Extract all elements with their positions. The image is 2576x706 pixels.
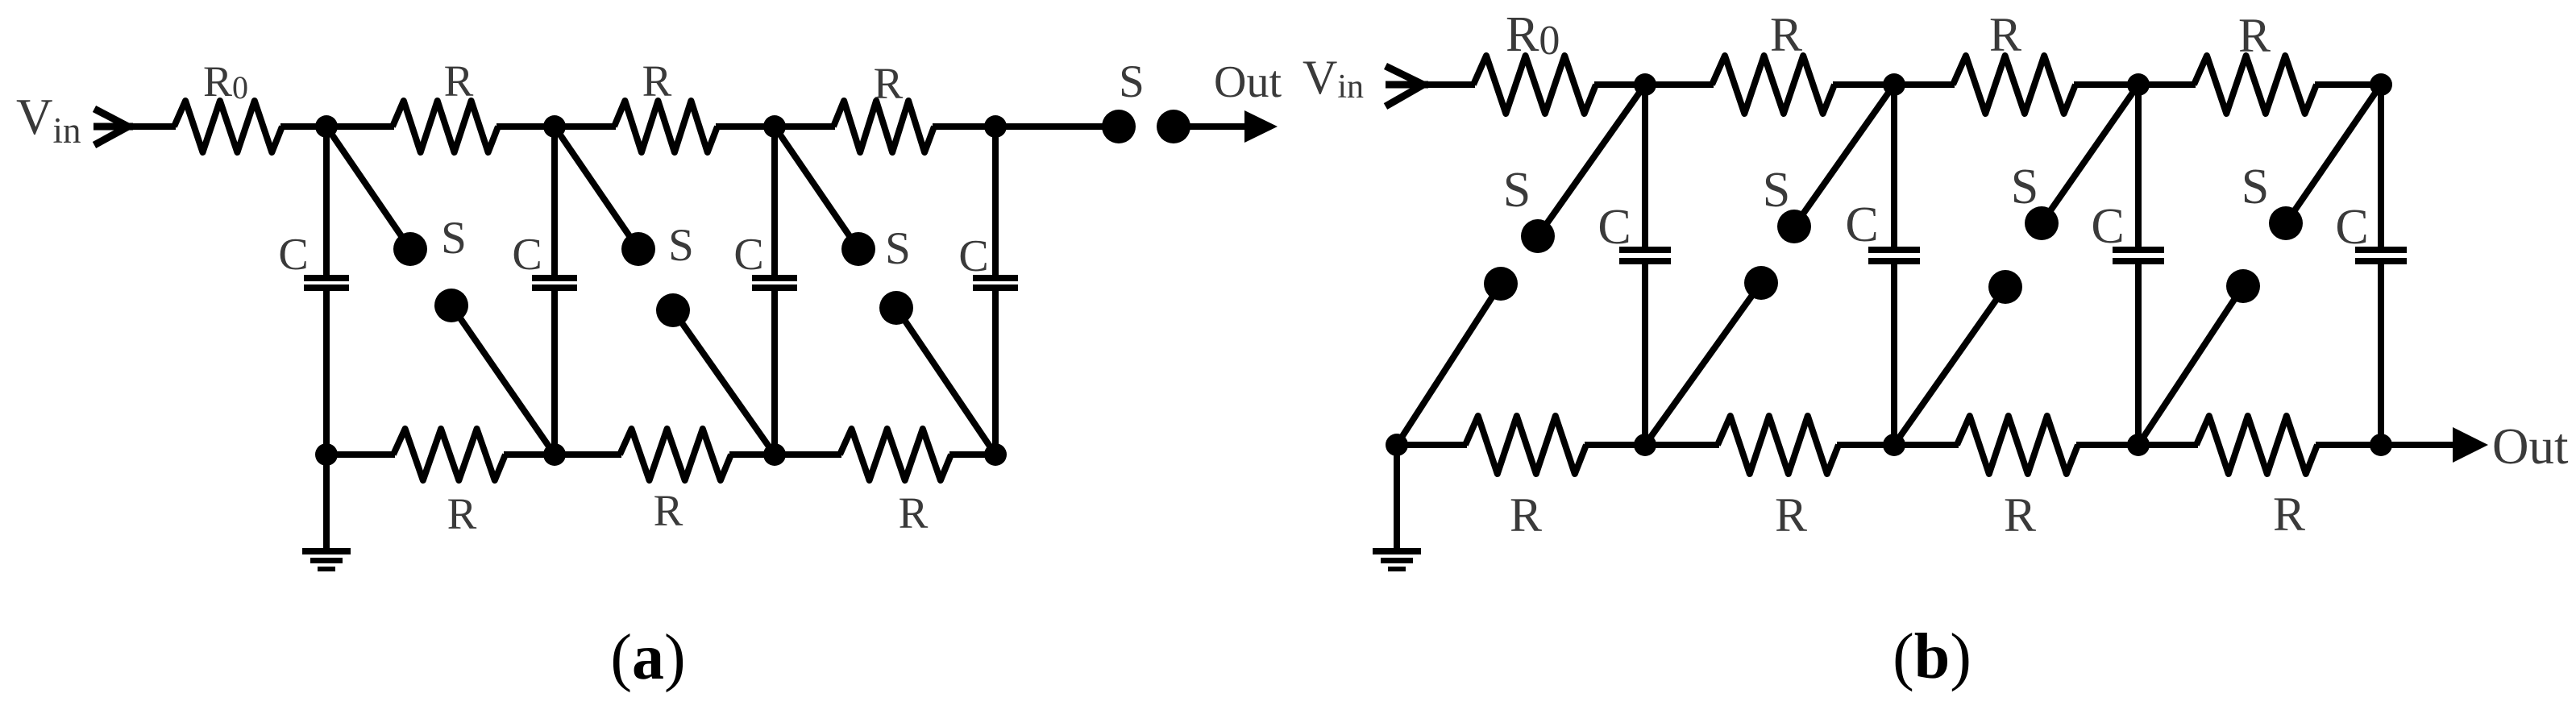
wire Vin arrow to R0 (a) — [127, 123, 176, 130]
capacitor C2 (b) — [1868, 250, 1920, 261]
svg-text:Out: Out — [1214, 57, 1282, 107]
svg-text:S: S — [668, 220, 694, 271]
svg-text:(a): (a) — [610, 622, 685, 693]
resistor R (b bottom 2) — [1718, 416, 1839, 474]
svg-text:Out: Out — [2492, 418, 2569, 475]
resistor R (a top 2) — [614, 101, 717, 152]
wire resistor R to bottom node 4 (b) — [2316, 442, 2381, 448]
wire node 2 to resistor R (a top 2) — [555, 123, 616, 130]
wire node 1 to resistor R (b top 1) — [1645, 81, 1714, 88]
wire resistor R to bottom node 3 (a) — [729, 451, 775, 458]
switch S2 contact dot lower (a) — [656, 293, 690, 327]
svg-text:R: R — [2238, 9, 2271, 62]
switch S1 contact dot lower (b) — [1484, 267, 1518, 301]
switch S2 blade lower (b) — [1645, 283, 1761, 445]
svg-text:R: R — [444, 56, 474, 106]
svg-text:S: S — [885, 223, 911, 274]
wire resistor R to bottom node 4 (a) — [949, 451, 995, 458]
wire resistor R to node 2 (a) — [497, 123, 555, 130]
svg-text:C: C — [2335, 200, 2368, 255]
switch S3 blade lower (b) — [1894, 287, 2005, 445]
svg-text:R: R — [2004, 488, 2036, 542]
switch S3 contact dot lower (a) — [879, 291, 913, 325]
switch S4 contact dot lower (b) — [2226, 269, 2260, 303]
switch S3 contact dot upper (b) — [2025, 206, 2059, 240]
svg-text:C: C — [512, 230, 542, 280]
capacitor C3 (a) — [752, 278, 797, 288]
wire capacitor C4 to bottom node (b) — [2378, 264, 2384, 445]
node bottom 1 (a) — [315, 443, 338, 466]
svg-text:S: S — [1763, 163, 1790, 218]
resistor R (b top 1) — [1712, 56, 1834, 114]
node bottom 2 (b) — [1883, 434, 1905, 456]
wire resistor R to node 4 (a) — [933, 123, 995, 130]
switch S1 contact dot lower (a) — [434, 289, 468, 322]
resistor R (a bottom 3) — [840, 429, 951, 480]
wire resistor R to node 3 (b) — [2074, 81, 2138, 88]
wire capacitor C1 to bottom node (a) — [323, 291, 330, 455]
resistor R (b bottom 1) — [1465, 416, 1586, 474]
node top 1 (a) — [315, 115, 338, 138]
resistor R0 (b) — [1473, 56, 1596, 114]
node top 2 (b) — [1883, 73, 1905, 96]
wire capacitor C1 to bottom node (b) — [1642, 264, 1648, 445]
svg-text:R: R — [447, 489, 477, 538]
svg-text:C: C — [278, 230, 308, 280]
wire node 1 to resistor R (a top 1) — [326, 123, 394, 130]
node top 3 (b) — [2127, 73, 2150, 96]
wire resistor R to bottom node 2 (b) — [1837, 442, 1894, 448]
node top 4 (b) — [2370, 73, 2392, 96]
node top 4 (a) — [984, 115, 1007, 138]
Vin input arrow (a) — [93, 109, 133, 145]
capacitor C1 (a) — [304, 278, 349, 288]
node top 1 (b) — [1634, 73, 1656, 96]
switch S2 blade upper (a) — [555, 127, 638, 249]
wire node 3 to capacitor C (b3) — [2135, 85, 2142, 247]
output arrowhead (a) — [1244, 110, 1278, 143]
svg-text:R: R — [1989, 8, 2021, 61]
svg-text:C: C — [2091, 199, 2124, 254]
switch S contact dot right (a out) — [1157, 110, 1190, 143]
wire node 2 to capacitor C (b2) — [1891, 85, 1897, 247]
switch S2 contact dot upper (a) — [621, 232, 655, 266]
svg-text:R0: R0 — [203, 57, 248, 106]
resistor R (b bottom 3) — [1957, 416, 2078, 474]
wire bottom node 3 to resistor R (b bottom 4) — [2138, 442, 2198, 448]
svg-text:Vin: Vin — [16, 89, 81, 151]
node bottom 2 (a) — [543, 443, 566, 466]
svg-text:C: C — [1845, 197, 1878, 252]
wire resistor R to node 2 (b) — [1833, 81, 1894, 88]
wire resistor R to bottom node 3 (b) — [2076, 442, 2138, 448]
wire Vin arrow to R0 (b) — [1423, 81, 1475, 88]
wire bottom node 2 to resistor R (a bottom 2) — [555, 451, 621, 458]
wire capacitor C2 to bottom node (a) — [551, 291, 558, 455]
switch S4 blade upper (b) — [2286, 85, 2381, 223]
switch S4 blade lower (b) — [2138, 286, 2243, 445]
switch S1 contact dot upper (a) — [393, 232, 427, 266]
wire node 3 to resistor R (a top 3) — [775, 123, 835, 130]
wire R0 to node 1 (a) — [280, 123, 326, 130]
switch S contact dot left (a out) — [1102, 110, 1136, 143]
svg-text:S: S — [1503, 163, 1531, 218]
node bottom 1 (b) — [1634, 434, 1656, 456]
wire capacitor C3 to bottom node (a) — [771, 291, 778, 455]
node bottom 3 (b) — [2127, 434, 2150, 456]
wire capacitor C2 to bottom node (b) — [1891, 264, 1897, 445]
svg-text:S: S — [2242, 160, 2269, 214]
resistor R (b top 3) — [2194, 56, 2316, 114]
svg-text:C: C — [958, 231, 988, 281]
wire node 3 to resistor R (b top 3) — [2138, 81, 2196, 88]
node bottom 4 (a) — [984, 443, 1007, 466]
switch S1 blade lower (a) — [451, 305, 555, 455]
svg-text:R0: R0 — [1506, 7, 1560, 64]
svg-text:R: R — [1775, 488, 1807, 542]
ground (b) — [1373, 445, 1421, 569]
switch S2 contact dot upper (b) — [1777, 210, 1811, 243]
svg-text:S: S — [441, 213, 467, 264]
svg-text:R: R — [899, 488, 929, 538]
wire switch to output arrow (a) — [1174, 123, 1248, 130]
svg-text:(b): (b) — [1893, 621, 1971, 692]
wire node 4 to switch S (a) — [995, 123, 1119, 130]
wire bottom node 4 to output arrow (b) — [2381, 442, 2456, 448]
wire node 1 to capacitor C (b1) — [1642, 85, 1648, 247]
node bottom 0 (b) — [1386, 434, 1408, 456]
switch S1 blade upper (b) — [1538, 85, 1645, 236]
wire node 4 to capacitor C (a4) — [992, 127, 999, 275]
capacitor C4 (a) — [973, 278, 1018, 288]
svg-text:S: S — [1119, 56, 1145, 107]
node bottom 3 (a) — [763, 443, 786, 466]
node top 2 (a) — [543, 115, 566, 138]
resistor R (a top 3) — [833, 101, 934, 152]
switch S1 blade upper (a) — [326, 127, 410, 249]
wire node 2 to capacitor C (a2) — [551, 127, 558, 275]
switch S3 contact dot upper (a) — [841, 232, 875, 266]
svg-text:R: R — [874, 59, 904, 108]
resistor R0 (a) — [174, 101, 282, 152]
switch S3 blade upper (b) — [2042, 85, 2138, 223]
svg-text:R: R — [1770, 8, 1802, 61]
resistor R (b bottom 4) — [2196, 416, 2317, 474]
switch S2 contact dot lower (b) — [1744, 266, 1778, 300]
wire resistor R to bottom node 2 (a) — [504, 451, 555, 458]
ground (a) — [302, 455, 351, 569]
node top 3 (a) — [763, 115, 786, 138]
Vin input arrow (b) — [1386, 66, 1428, 106]
switch S3 blade upper (a) — [775, 127, 858, 249]
capacitor C2 (a) — [532, 278, 577, 288]
svg-text:R: R — [2273, 488, 2305, 541]
switch S2 blade upper (b) — [1794, 85, 1894, 226]
output arrowhead (b) — [2453, 427, 2488, 463]
wire capacitor C3 to bottom node (b) — [2135, 264, 2142, 445]
switch S1 blade lower (b) — [1397, 284, 1501, 445]
wire resistor R to node 4 (b) — [2315, 81, 2381, 88]
wire bottom node 2 to resistor R (b bottom 3) — [1894, 442, 1959, 448]
capacitor C1 (b) — [1619, 250, 1671, 261]
wire node 4 to capacitor C (b4) — [2378, 85, 2384, 247]
switch S1 contact dot upper (b) — [1521, 219, 1555, 253]
svg-text:C: C — [1598, 200, 1631, 255]
wire capacitor C4 to bottom node (a) — [992, 291, 999, 455]
wire bottom node 1 to resistor R (b bottom 2) — [1645, 442, 1719, 448]
switch S3 blade lower (a) — [896, 308, 995, 455]
resistor R (a top 1) — [393, 101, 498, 152]
switch S3 contact dot lower (b) — [1988, 270, 2022, 304]
wire R0 to node 1 (b) — [1594, 81, 1645, 88]
svg-text:Vin: Vin — [1303, 51, 1364, 106]
wire node 3 to capacitor C (a3) — [771, 127, 778, 275]
switch S4 contact dot upper (b) — [2269, 206, 2303, 240]
node bottom 4 (b) — [2370, 434, 2392, 456]
svg-text:R: R — [1510, 488, 1542, 542]
svg-text:R: R — [654, 486, 683, 535]
resistor R (a bottom 2) — [620, 429, 731, 480]
wire node 2 to resistor R (b top 2) — [1894, 81, 1955, 88]
wire resistor R to node 3 (a) — [716, 123, 775, 130]
wire resistor R to bottom node 1 (b) — [1585, 442, 1645, 448]
svg-text:S: S — [2011, 160, 2038, 214]
svg-text:C: C — [733, 230, 763, 280]
wire node 1 to capacitor C (a1) — [323, 127, 330, 275]
switch S2 blade lower (a) — [673, 310, 775, 455]
wire bottom node 1 to resistor R (a bottom 1) — [326, 451, 395, 458]
capacitor C3 (b) — [2113, 250, 2164, 261]
resistor R (a bottom 1) — [393, 429, 505, 480]
wire bottom node 3 to resistor R (a bottom 3) — [775, 451, 841, 458]
wire bottom node 0 to resistor R (b bottom 1) — [1397, 442, 1467, 448]
svg-text:R: R — [642, 56, 672, 106]
capacitor C4 (b) — [2355, 250, 2407, 261]
resistor R (b top 2) — [1953, 56, 2075, 114]
